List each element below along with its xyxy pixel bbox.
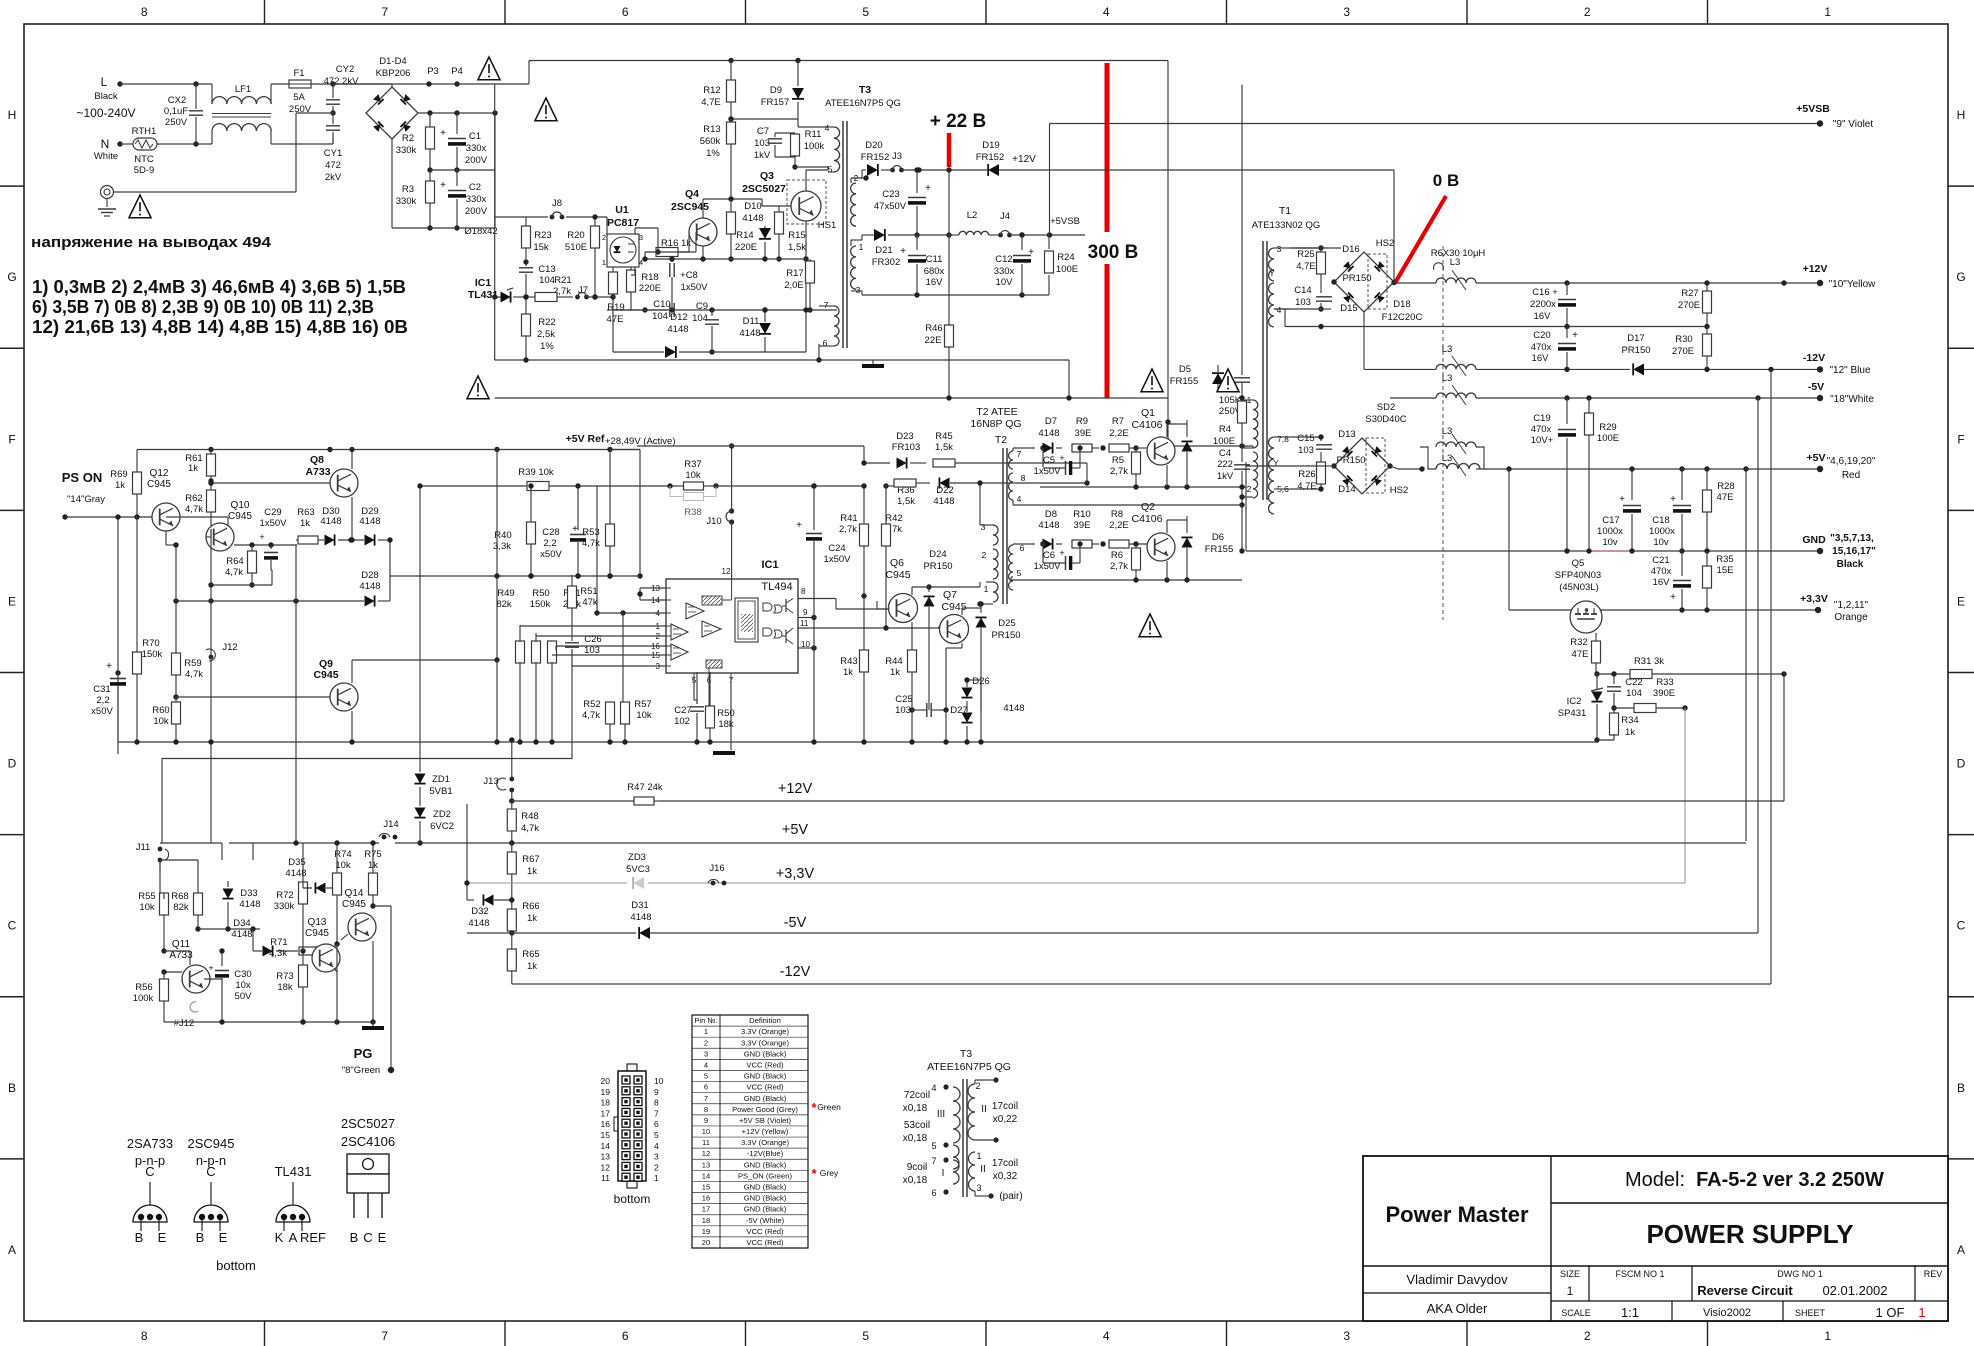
transformer T3 sec pin1 wire (850, 240, 852, 246)
wire bridge right to R2C1 (418, 112, 495, 114)
svg-text:R69: R69 (110, 469, 127, 480)
svg-text:472: 472 (325, 160, 341, 171)
svg-text:-12V(Blue): -12V(Blue) (747, 1149, 784, 1158)
svg-text:3: 3 (1343, 5, 1350, 19)
svg-text:103: 103 (754, 138, 770, 149)
wire riser x597 (610, 449, 640, 451)
svg-text:B: B (196, 1230, 205, 1245)
svg-text:R21: R21 (554, 275, 571, 286)
svg-text:2,2: 2,2 (96, 695, 109, 706)
wire R64 node to D28 row (295, 545, 297, 601)
transformer T2 core (1002, 448, 1004, 604)
svg-text:GND (Black): GND (Black) (744, 1160, 787, 1169)
svg-text:R62: R62 (185, 493, 202, 504)
svg-text:GND (Black): GND (Black) (744, 1094, 787, 1103)
svg-text:330k: 330k (396, 145, 417, 156)
svg-text:Power Good (Grey): Power Good (Grey) (732, 1105, 798, 1114)
svg-text:7: 7 (654, 1108, 659, 1118)
svg-text:L2: L2 (967, 210, 978, 221)
svg-text:10k: 10k (335, 860, 351, 871)
wire J11 drop (159, 860, 161, 872)
svg-text:C4106: C4106 (1132, 419, 1163, 431)
svg-text:R8: R8 (1111, 509, 1123, 520)
wire Q3 emitter (805, 221, 807, 310)
svg-text:VCC (Red): VCC (Red) (746, 1238, 784, 1247)
svg-text:+5V Ref: +5V Ref (566, 433, 605, 445)
svg-text:10: 10 (654, 1076, 664, 1086)
svg-text:3: 3 (639, 233, 643, 242)
svg-text:+: + (259, 532, 264, 542)
svg-text:C18: C18 (1652, 515, 1669, 526)
svg-text:5: 5 (862, 5, 869, 19)
svg-text:18: 18 (702, 1216, 710, 1225)
svg-text:"3,5,7,13,: "3,5,7,13, (1830, 533, 1874, 544)
svg-text:10: 10 (702, 1127, 710, 1136)
svg-text:Vladimir Davydov: Vladimir Davydov (1406, 1272, 1508, 1287)
svg-text:SFP40N03: SFP40N03 (1555, 570, 1601, 581)
svg-text:SCALE: SCALE (1561, 1308, 1591, 1318)
svg-text:R66: R66 (522, 901, 539, 912)
svg-text:R2: R2 (402, 133, 414, 144)
svg-text:100k: 100k (804, 141, 825, 152)
wire x1242 down (1241, 85, 1243, 375)
svg-text:B: B (135, 1230, 144, 1245)
wire R50 to pin2 (536, 635, 666, 637)
svg-text:J10: J10 (706, 516, 721, 527)
diode Q1 clamp (1186, 420, 1188, 437)
svg-text:222: 222 (1217, 459, 1233, 470)
svg-text:C: C (8, 919, 17, 933)
svg-text:C945: C945 (885, 569, 910, 581)
svg-text:C17: C17 (1602, 515, 1619, 526)
svg-text:R67: R67 (522, 854, 539, 865)
wire T2 pin7 row (1012, 448, 1014, 451)
wire +5V long vertical (1745, 469, 1747, 841)
wire Q8 emitter (351, 450, 353, 470)
svg-text:2,5k: 2,5k (537, 329, 555, 340)
svg-text:250V: 250V (165, 117, 188, 128)
svg-text:E: E (378, 1230, 387, 1245)
svg-text:H: H (8, 108, 17, 122)
svg-text:53coil: 53coil (904, 1120, 930, 1131)
svg-text:TL431: TL431 (275, 1164, 312, 1179)
svg-text:R32: R32 (1570, 637, 1587, 648)
wire F1 to bridge (311, 83, 392, 85)
svg-text:C20: C20 (1533, 330, 1550, 341)
wire filter bottom (271, 143, 333, 145)
svg-text:103: 103 (895, 705, 911, 716)
wire R70 tap (136, 685, 138, 742)
IC1 output transistor 2 (785, 630, 787, 643)
svg-text:II: II (981, 1104, 987, 1115)
svg-text:ATEE16N7P5 QG: ATEE16N7P5 QG (825, 98, 901, 109)
svg-text:D20: D20 (865, 140, 882, 151)
svg-text:-5V (White): -5V (White) (746, 1216, 785, 1225)
svg-text:Q7: Q7 (943, 589, 957, 601)
svg-text:1k: 1k (1625, 727, 1635, 738)
svg-text:VCC (Red): VCC (Red) (746, 1227, 784, 1236)
svg-text:D25: D25 (998, 618, 1015, 629)
svg-text:ATEE16N7P5 QG: ATEE16N7P5 QG (927, 1061, 1011, 1073)
svg-text:4,7k: 4,7k (185, 504, 203, 515)
svg-text:2SA733: 2SA733 (127, 1136, 173, 1151)
terminal PS ON (62, 514, 67, 519)
svg-text:470x: 470x (1531, 342, 1552, 353)
svg-text:+: + (106, 661, 112, 672)
svg-text:5VC3: 5VC3 (626, 864, 650, 875)
svg-text:R33: R33 (1656, 677, 1673, 688)
svg-text:U1: U1 (615, 204, 629, 216)
svg-text:VCC (Red): VCC (Red) (746, 1060, 784, 1069)
wire Q11 base (164, 950, 190, 952)
svg-text:2,2: 2,2 (543, 538, 556, 549)
wire Q9 emitter (351, 711, 353, 742)
wire grey 3.3 left (467, 882, 627, 884)
wire vert Q5 gate (1585, 633, 1587, 635)
svg-text:D7: D7 (1045, 416, 1057, 427)
wire J12 vertical (210, 529, 212, 657)
wire pin8 out (798, 598, 836, 600)
svg-text:R43: R43 (840, 656, 857, 667)
wire ps-on vertical (117, 517, 119, 754)
svg-text:R18: R18 (641, 272, 658, 283)
svg-text:4: 4 (1103, 1329, 1110, 1343)
svg-text:4148: 4148 (933, 496, 954, 507)
diode D34 symbol (263, 945, 273, 956)
svg-text:7,8: 7,8 (1277, 434, 1289, 444)
svg-text:R22: R22 (538, 317, 555, 328)
svg-text:напряжение на выводах 494: напряжение на выводах 494 (31, 234, 272, 251)
svg-text:"1,2,11": "1,2,11" (1834, 600, 1869, 611)
svg-text:C: C (1957, 919, 1966, 933)
svg-text:5: 5 (931, 1141, 936, 1151)
wire +5VSB bus (1050, 123, 1821, 125)
wire Q5 branch (1508, 469, 1510, 610)
svg-text:R25: R25 (1297, 249, 1314, 260)
IC1 osc block (706, 660, 722, 668)
svg-text:FR155: FR155 (1205, 544, 1234, 555)
svg-text:S30D40C: S30D40C (1365, 414, 1406, 425)
wire R39 left (419, 486, 421, 497)
svg-text:Grey: Grey (820, 1168, 839, 1178)
svg-text:C21: C21 (1652, 555, 1669, 566)
svg-text:300 В: 300 В (1088, 242, 1139, 263)
svg-text:2,0E: 2,0E (784, 280, 804, 291)
svg-text:Q12: Q12 (150, 468, 169, 479)
wire IC pin4 (623, 612, 666, 614)
svg-text:47x50V: 47x50V (874, 201, 907, 212)
svg-text:4148: 4148 (359, 581, 380, 592)
IC1 comparator 3 (671, 624, 688, 640)
svg-text:PS ON: PS ON (62, 470, 102, 485)
svg-text:R40: R40 (494, 530, 511, 541)
svg-text:A: A (289, 1230, 298, 1245)
svg-text:C4: C4 (1219, 448, 1231, 459)
svg-text:17coil: 17coil (992, 1158, 1018, 1169)
svg-text:+: + (1670, 592, 1676, 603)
svg-text:5: 5 (654, 1130, 659, 1140)
svg-text:1,5k: 1,5k (788, 242, 806, 253)
svg-text:16V: 16V (1653, 577, 1671, 588)
svg-text:ZD1: ZD1 (432, 774, 450, 785)
svg-text:82k: 82k (496, 599, 512, 610)
wire R51 to pin15 (552, 654, 666, 656)
svg-text:7: 7 (381, 5, 388, 19)
svg-text:47E: 47E (607, 314, 624, 325)
svg-text:R55: R55 (138, 891, 155, 902)
svg-text:R24: R24 (1057, 252, 1074, 263)
svg-text:C15: C15 (1297, 433, 1314, 444)
wire T2 pin6 row (1012, 544, 1014, 545)
svg-text:7: 7 (1017, 449, 1022, 459)
svg-text:R34: R34 (1621, 715, 1638, 726)
svg-text:R35: R35 (1716, 554, 1733, 565)
wire Q10 emitter down (251, 545, 253, 551)
svg-text:C30: C30 (234, 969, 251, 980)
svg-text:SP431: SP431 (1558, 708, 1587, 719)
svg-text:R52: R52 (583, 699, 600, 710)
svg-text:1k: 1k (115, 480, 125, 491)
svg-text:T2: T2 (995, 434, 1007, 446)
svg-text:R29: R29 (1599, 422, 1616, 433)
svg-text:8: 8 (654, 1098, 659, 1108)
wire +5V rail (1390, 466, 1398, 469)
svg-text:C945: C945 (305, 928, 329, 939)
svg-text:ZD2: ZD2 (433, 809, 451, 820)
svg-text:T3: T3 (960, 1048, 972, 1060)
wire feedback E row (118, 741, 1597, 743)
svg-text:+C8: +C8 (680, 270, 698, 281)
title block (1363, 1156, 1948, 1321)
svg-text:R48: R48 (521, 811, 538, 822)
svg-text:+: + (1028, 247, 1034, 258)
svg-text:8: 8 (141, 1329, 148, 1343)
svg-text:REF: REF (300, 1230, 326, 1245)
wire D35 left (303, 887, 312, 889)
svg-text:T2 ATEE: T2 ATEE (976, 406, 1017, 418)
svg-text:470x: 470x (1531, 424, 1552, 435)
svg-text:NTC: NTC (134, 154, 154, 165)
wire T1 lower pins (1290, 436, 1321, 438)
svg-text:F12C20C: F12C20C (1382, 312, 1423, 323)
svg-text:1k: 1k (527, 913, 537, 924)
svg-text:2: 2 (982, 550, 987, 560)
svg-text:5: 5 (1017, 568, 1022, 578)
svg-text:4148: 4148 (667, 324, 688, 335)
svg-text:Q3: Q3 (760, 170, 774, 182)
svg-text:6: 6 (704, 1083, 708, 1092)
wire -5V rail (1390, 397, 1436, 399)
wire SD2 left (1321, 465, 1334, 467)
resistor R38 ghost (684, 493, 704, 501)
svg-text:Pin №.: Pin №. (694, 1016, 717, 1025)
svg-text:390E: 390E (1653, 688, 1675, 699)
wire row 576 (497, 575, 640, 577)
svg-text:4: 4 (654, 1141, 659, 1151)
svg-text:4,3k: 4,3k (269, 948, 287, 959)
svg-text:D10: D10 (744, 201, 761, 212)
wire J8 row (495, 216, 548, 218)
svg-text:4,7k: 4,7k (582, 710, 600, 721)
svg-text:15,16,17": 15,16,17" (1832, 546, 1876, 557)
svg-text:16V: 16V (1532, 353, 1550, 364)
svg-text:2,2E: 2,2E (1109, 428, 1129, 439)
svg-text:C25: C25 (895, 694, 912, 705)
IC1 dead-time block (702, 596, 722, 605)
wire Q10 emitter row (234, 544, 296, 546)
wire R12 D9 node (731, 118, 798, 120)
svg-text:1: 1 (1918, 1305, 1925, 1320)
svg-text:D6: D6 (1212, 532, 1224, 543)
svg-text:HS1: HS1 (818, 220, 836, 231)
svg-text:~100-240V: ~100-240V (76, 106, 135, 120)
svg-text:2: 2 (1584, 1329, 1591, 1343)
svg-text:CX2: CX2 (168, 95, 186, 106)
svg-text:J3: J3 (892, 151, 902, 162)
svg-text:7: 7 (381, 1329, 388, 1343)
svg-text:GND (Black): GND (Black) (744, 1183, 787, 1192)
wire +5V bottom rail (420, 842, 1746, 844)
svg-text:1: 1 (704, 1027, 708, 1036)
svg-text:3: 3 (856, 285, 861, 295)
svg-text:+12V: +12V (1803, 263, 1828, 275)
wire PG out (373, 905, 391, 907)
svg-text:+: + (1572, 330, 1578, 341)
svg-text:472 2kV: 472 2kV (324, 76, 360, 87)
wire 0V node to L3 (1394, 282, 1436, 284)
svg-text:C24: C24 (828, 543, 845, 554)
wire T2 pin4 row (1013, 504, 1035, 506)
svg-text:J16: J16 (709, 863, 724, 874)
svg-text:12) 21,6В 13) 4,8В 14) 4,8В: 12) 21,6В 13) 4,8В 14) 4,8В 15) 4,8В 16)… (32, 316, 408, 337)
svg-text:13: 13 (702, 1160, 710, 1169)
wire row 487 (1040, 486, 1246, 488)
svg-text:C4106: C4106 (1132, 513, 1163, 525)
svg-text:PR150: PR150 (991, 630, 1020, 641)
svg-text:10k: 10k (636, 710, 652, 721)
svg-text:PG: PG (354, 1046, 373, 1061)
svg-text:D12: D12 (670, 312, 687, 323)
svg-text:C2: C2 (469, 182, 481, 193)
svg-text:47E: 47E (1572, 649, 1589, 660)
svg-text:T1: T1 (1279, 205, 1291, 217)
wire T1 pin4 row (1274, 308, 1321, 310)
svg-text:104: 104 (652, 311, 668, 322)
svg-text:14: 14 (601, 1141, 611, 1151)
wire Q2 emitter (1166, 561, 1168, 580)
wire ZD vertical (466, 804, 468, 900)
svg-text:R12: R12 (703, 85, 720, 96)
svg-text:D8: D8 (1045, 509, 1057, 520)
svg-text:15k: 15k (533, 242, 549, 253)
svg-text:AKA Older: AKA Older (1427, 1301, 1488, 1316)
svg-text:"18"White: "18"White (1830, 394, 1874, 405)
wire y408 link (946, 395, 951, 400)
svg-text:100E: 100E (1213, 436, 1235, 447)
svg-text:D17: D17 (1627, 333, 1644, 344)
svg-text:I: I (942, 1168, 945, 1179)
wire D5 snubber (1217, 365, 1219, 390)
svg-text:C5: C5 (1043, 455, 1055, 466)
svg-text:103: 103 (1298, 445, 1314, 456)
svg-text:R65: R65 (522, 949, 539, 960)
svg-text:330k: 330k (396, 196, 417, 207)
IC U3 TL494 body (666, 579, 798, 673)
IC1 output transistor 1 (785, 599, 787, 612)
svg-text:4: 4 (1017, 494, 1022, 504)
wire GND rail (1246, 550, 1589, 552)
svg-text:GND: GND (1802, 534, 1826, 546)
svg-text:10k: 10k (139, 902, 155, 913)
svg-text:1: 1 (984, 584, 989, 594)
svg-text:50V: 50V (235, 991, 253, 1002)
svg-text:104: 104 (1626, 688, 1642, 699)
svg-text:100E: 100E (1056, 264, 1078, 275)
wire 300V lower bus (495, 397, 1168, 399)
svg-text:4: 4 (1277, 305, 1282, 315)
svg-text:ZD3: ZD3 (628, 852, 646, 863)
svg-text:L3: L3 (1442, 373, 1453, 384)
svg-text:R28: R28 (1717, 481, 1734, 492)
svg-text:R39 10k: R39 10k (518, 467, 554, 478)
svg-text:-12V: -12V (1803, 352, 1825, 364)
svg-text:R37: R37 (684, 459, 701, 470)
svg-text:B: B (8, 1081, 16, 1095)
svg-text:C16 +: C16 + (1532, 287, 1558, 298)
svg-text:GND (Black): GND (Black) (744, 1194, 787, 1203)
svg-text:1%: 1% (540, 341, 554, 352)
svg-text:+5VSB: +5VSB (1050, 216, 1080, 227)
svg-text:103: 103 (584, 645, 600, 656)
warning triangle top (478, 57, 500, 80)
svg-text:Visio2002: Visio2002 (1703, 1307, 1751, 1319)
svg-text:A: A (8, 1243, 16, 1257)
svg-text:R57: R57 (634, 699, 651, 710)
svg-text:D18: D18 (1393, 299, 1410, 310)
svg-text:L3: L3 (1442, 453, 1453, 464)
wire -12V rail (1397, 368, 1436, 370)
svg-text:Q5: Q5 (1572, 558, 1585, 569)
svg-text:150k: 150k (142, 649, 163, 660)
svg-text:Q4: Q4 (685, 188, 699, 200)
svg-text:C1: C1 (469, 131, 481, 142)
svg-text:PC817: PC817 (607, 217, 639, 229)
svg-text:-5V: -5V (784, 915, 807, 931)
svg-text:680x: 680x (924, 266, 945, 277)
svg-text:D19: D19 (982, 140, 999, 151)
svg-text:7: 7 (931, 1156, 936, 1166)
svg-text:D33: D33 (240, 888, 257, 899)
svg-text:D21: D21 (875, 245, 892, 256)
svg-text:+: + (1619, 494, 1625, 505)
svg-text:R68: R68 (171, 891, 188, 902)
svg-text:8: 8 (704, 1105, 708, 1114)
warning triangle mid (535, 98, 557, 121)
svg-text:III: III (937, 1109, 945, 1120)
svg-text:39E: 39E (1075, 428, 1092, 439)
svg-text:4148: 4148 (1038, 520, 1059, 531)
svg-text:5A: 5A (293, 92, 305, 103)
svg-text:R42: R42 (885, 513, 902, 524)
wire pin9 stub (798, 617, 814, 619)
wire control block bottom (495, 359, 1069, 361)
svg-text:FSCM NO 1: FSCM NO 1 (1615, 1269, 1664, 1279)
svg-text:GND (Black): GND (Black) (744, 1205, 787, 1214)
svg-text:-12V: -12V (780, 964, 811, 980)
svg-text:1:1: 1:1 (1621, 1305, 1639, 1320)
svg-text:270E: 270E (1672, 346, 1694, 357)
svg-text:02.01.2002: 02.01.2002 (1822, 1283, 1887, 1298)
